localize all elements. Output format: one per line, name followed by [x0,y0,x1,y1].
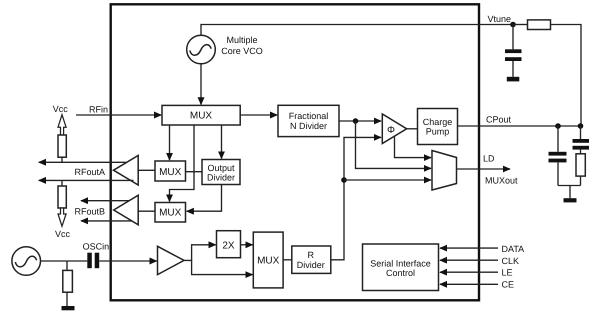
wire MUX3 to R Divider [283,259,291,261]
svg-text:LE: LE [502,267,513,277]
resistor R2 (RFoutA pull-up) [58,135,66,162]
wire CE [440,283,498,285]
phase detector PFD [382,114,406,144]
capacitor C3 (loop filter series) [573,126,590,150]
mux MUX1 (RFoutA select) [155,161,186,181]
svg-text:Core VCO: Core VCO [221,46,263,56]
wire 2X to MUX3 [241,244,253,246]
wire MUX1 to Output Divider [186,171,203,173]
svg-text:RFoutB: RFoutB [75,206,106,216]
node N divider junction [353,118,359,124]
charge pump U2 [418,109,458,145]
divider R Divider [292,246,331,273]
oscillator VCO (Multiple Core VCO) [187,35,216,64]
svg-text:RFoutA: RFoutA [75,167,106,177]
divider Fractional N Divider [278,105,339,136]
svg-text:LD: LD [483,153,495,163]
node CPout junction 2 [578,123,584,129]
wire RFoutA+ [39,161,127,163]
svg-text:Control: Control [386,268,415,278]
node Vtune junction [510,22,516,28]
svg-text:OSCin: OSCin [83,242,110,252]
Vcc supply arrow (open, down) [58,208,66,226]
wire amplifier A3 to 2X [184,245,216,261]
wire junction to MUXout mux input 3 [344,179,431,181]
wire LD / MUXout output [457,168,511,170]
svg-text:MUX: MUX [190,110,213,121]
svg-text:Divider: Divider [297,260,325,270]
Vcc supply arrow (open, up) [58,115,66,135]
wire RFoutB+ [81,200,129,202]
oscillator OSC (reference crystal) [12,247,41,276]
wire amplifier A3 to MUX3 [192,260,253,274]
resistor R4 (loop filter) [576,150,585,186]
wire VCO top to Vtune node [201,25,513,36]
svg-text:Vcc: Vcc [53,104,69,114]
divider Output Divider [202,160,240,185]
svg-text:MUXout: MUXout [485,176,518,186]
svg-text:Serial Interface: Serial Interface [370,258,431,268]
wire PFD to MUXout mux input 1 [395,136,432,157]
mux MUX (main) [162,105,240,125]
multiplier 2X [217,231,241,258]
svg-text:N Divider: N Divider [290,121,327,131]
svg-text:Φ: Φ [387,125,395,136]
wire R Divider to PFD [331,137,382,259]
resistor R5 (reference termination) [63,261,73,306]
svg-text:MUX: MUX [159,208,182,219]
wire MUX to Output Divider [221,125,223,159]
wire N divider to PFD [339,120,381,122]
wire DATA [440,247,498,249]
svg-text:Vcc: Vcc [55,229,71,239]
svg-text:CLK: CLK [502,256,520,266]
wire CLK [440,259,498,261]
svg-text:MUX: MUX [257,255,280,266]
svg-text:Vtune: Vtune [488,14,512,24]
mux MUX2 (RFoutB select) [155,203,186,223]
svg-text:2X: 2X [222,241,235,252]
svg-text:MUX: MUX [159,167,182,178]
wire junction to MUXout mux input 2 [356,121,432,168]
wire OSC to OSCin cap [41,260,88,262]
ground (loop filter) [564,198,577,202]
resistor R1 (Vtune series) [513,20,581,126]
svg-text:RFin: RFin [89,105,108,115]
wire LE [440,271,498,273]
wire RFin to MUX [76,114,161,116]
svg-text:Fractional: Fractional [289,111,329,121]
mux MUX3 (reference select) [253,232,283,288]
wire MUX to MUX1 [169,125,171,160]
node CPout junction 1 [555,123,561,129]
wire MUX2 to amplifier A2 [138,210,155,212]
wire RFoutA- [39,179,134,181]
ground (reference termination) [62,306,75,310]
wire loop filter join [558,186,581,199]
ground (Vtune cap) [507,77,520,82]
svg-text:Multiple: Multiple [226,35,257,45]
svg-text:CPout: CPout [486,114,512,124]
svg-text:Output: Output [207,163,235,173]
svg-text:Divider: Divider [207,173,235,183]
wire CPout [458,125,582,127]
serial interface control U3 [363,244,439,291]
svg-text:Charge: Charge [423,117,453,127]
amplifier A2 (RFoutB buffer) [114,195,139,225]
svg-text:DATA: DATA [502,244,525,254]
wire Output Divider to MUX2 [187,185,222,212]
resistor R3 (RFoutA pull-down to Vcc) [58,180,66,208]
amplifier A1 (RFoutA buffer) [114,156,139,186]
capacitor C2 (loop filter) [549,126,567,186]
node R divider junction [341,177,347,183]
wire OSCin cap to amplifier A3 [99,260,157,262]
wire RFoutB- [81,220,132,222]
wire MUX to Fractional N Divider [240,114,277,116]
chip boundary [111,4,479,300]
svg-text:CE: CE [502,279,515,289]
svg-text:Pump: Pump [426,126,450,136]
capacitor C1 (Vtune filter cap) [505,25,522,77]
mux MUXout selector (trapezoid) [432,151,457,191]
capacitor C4 (OSCin coupling) [87,253,99,269]
amplifier A3 (reference buffer) [158,246,185,274]
wire MUX1 to amplifier A1 [138,169,155,171]
wire VCO bottom to MUX [200,64,202,105]
svg-text:R: R [308,250,315,260]
wire MUX to MUX2 [170,125,195,202]
wire PFD to Charge Pump [407,128,418,130]
